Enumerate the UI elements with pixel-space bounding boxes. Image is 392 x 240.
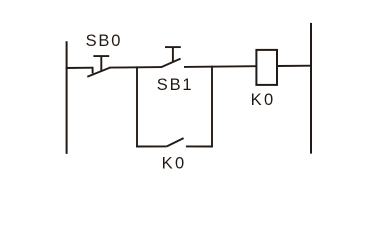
coil K0 rectangle: [256, 50, 277, 85]
SB0 actuator stem: [100, 56, 102, 72]
switch SB0 blade (NC pushbutton): [87, 68, 110, 77]
svg-text:SB0: SB0: [86, 32, 123, 50]
svg-text:K0: K0: [251, 91, 276, 109]
svg-text:SB1: SB1: [157, 76, 194, 94]
branch left vertical wire: [136, 66, 138, 147]
SB0 fixed contact tick: [92, 67, 94, 73]
branch wire from K0 contact: [186, 145, 213, 147]
SB1 actuator bar: [165, 46, 181, 48]
svg-text:K0: K0: [162, 154, 187, 172]
wire SB0 to SB1: [110, 66, 162, 69]
right rail: [310, 23, 312, 154]
branch wire to K0 contact: [136, 145, 167, 147]
wire coil to right rail: [277, 65, 312, 67]
left rail: [66, 41, 68, 154]
contact K0 blade (NO latching contact): [167, 138, 184, 146]
wire SB1 to coil: [184, 65, 256, 68]
SB0 actuator bar: [93, 55, 109, 57]
switch SB1 blade (NO pushbutton): [161, 59, 181, 68]
wire left rail to SB0: [66, 67, 94, 69]
SB1 actuator stem: [172, 47, 174, 63]
branch right vertical wire: [211, 66, 213, 148]
